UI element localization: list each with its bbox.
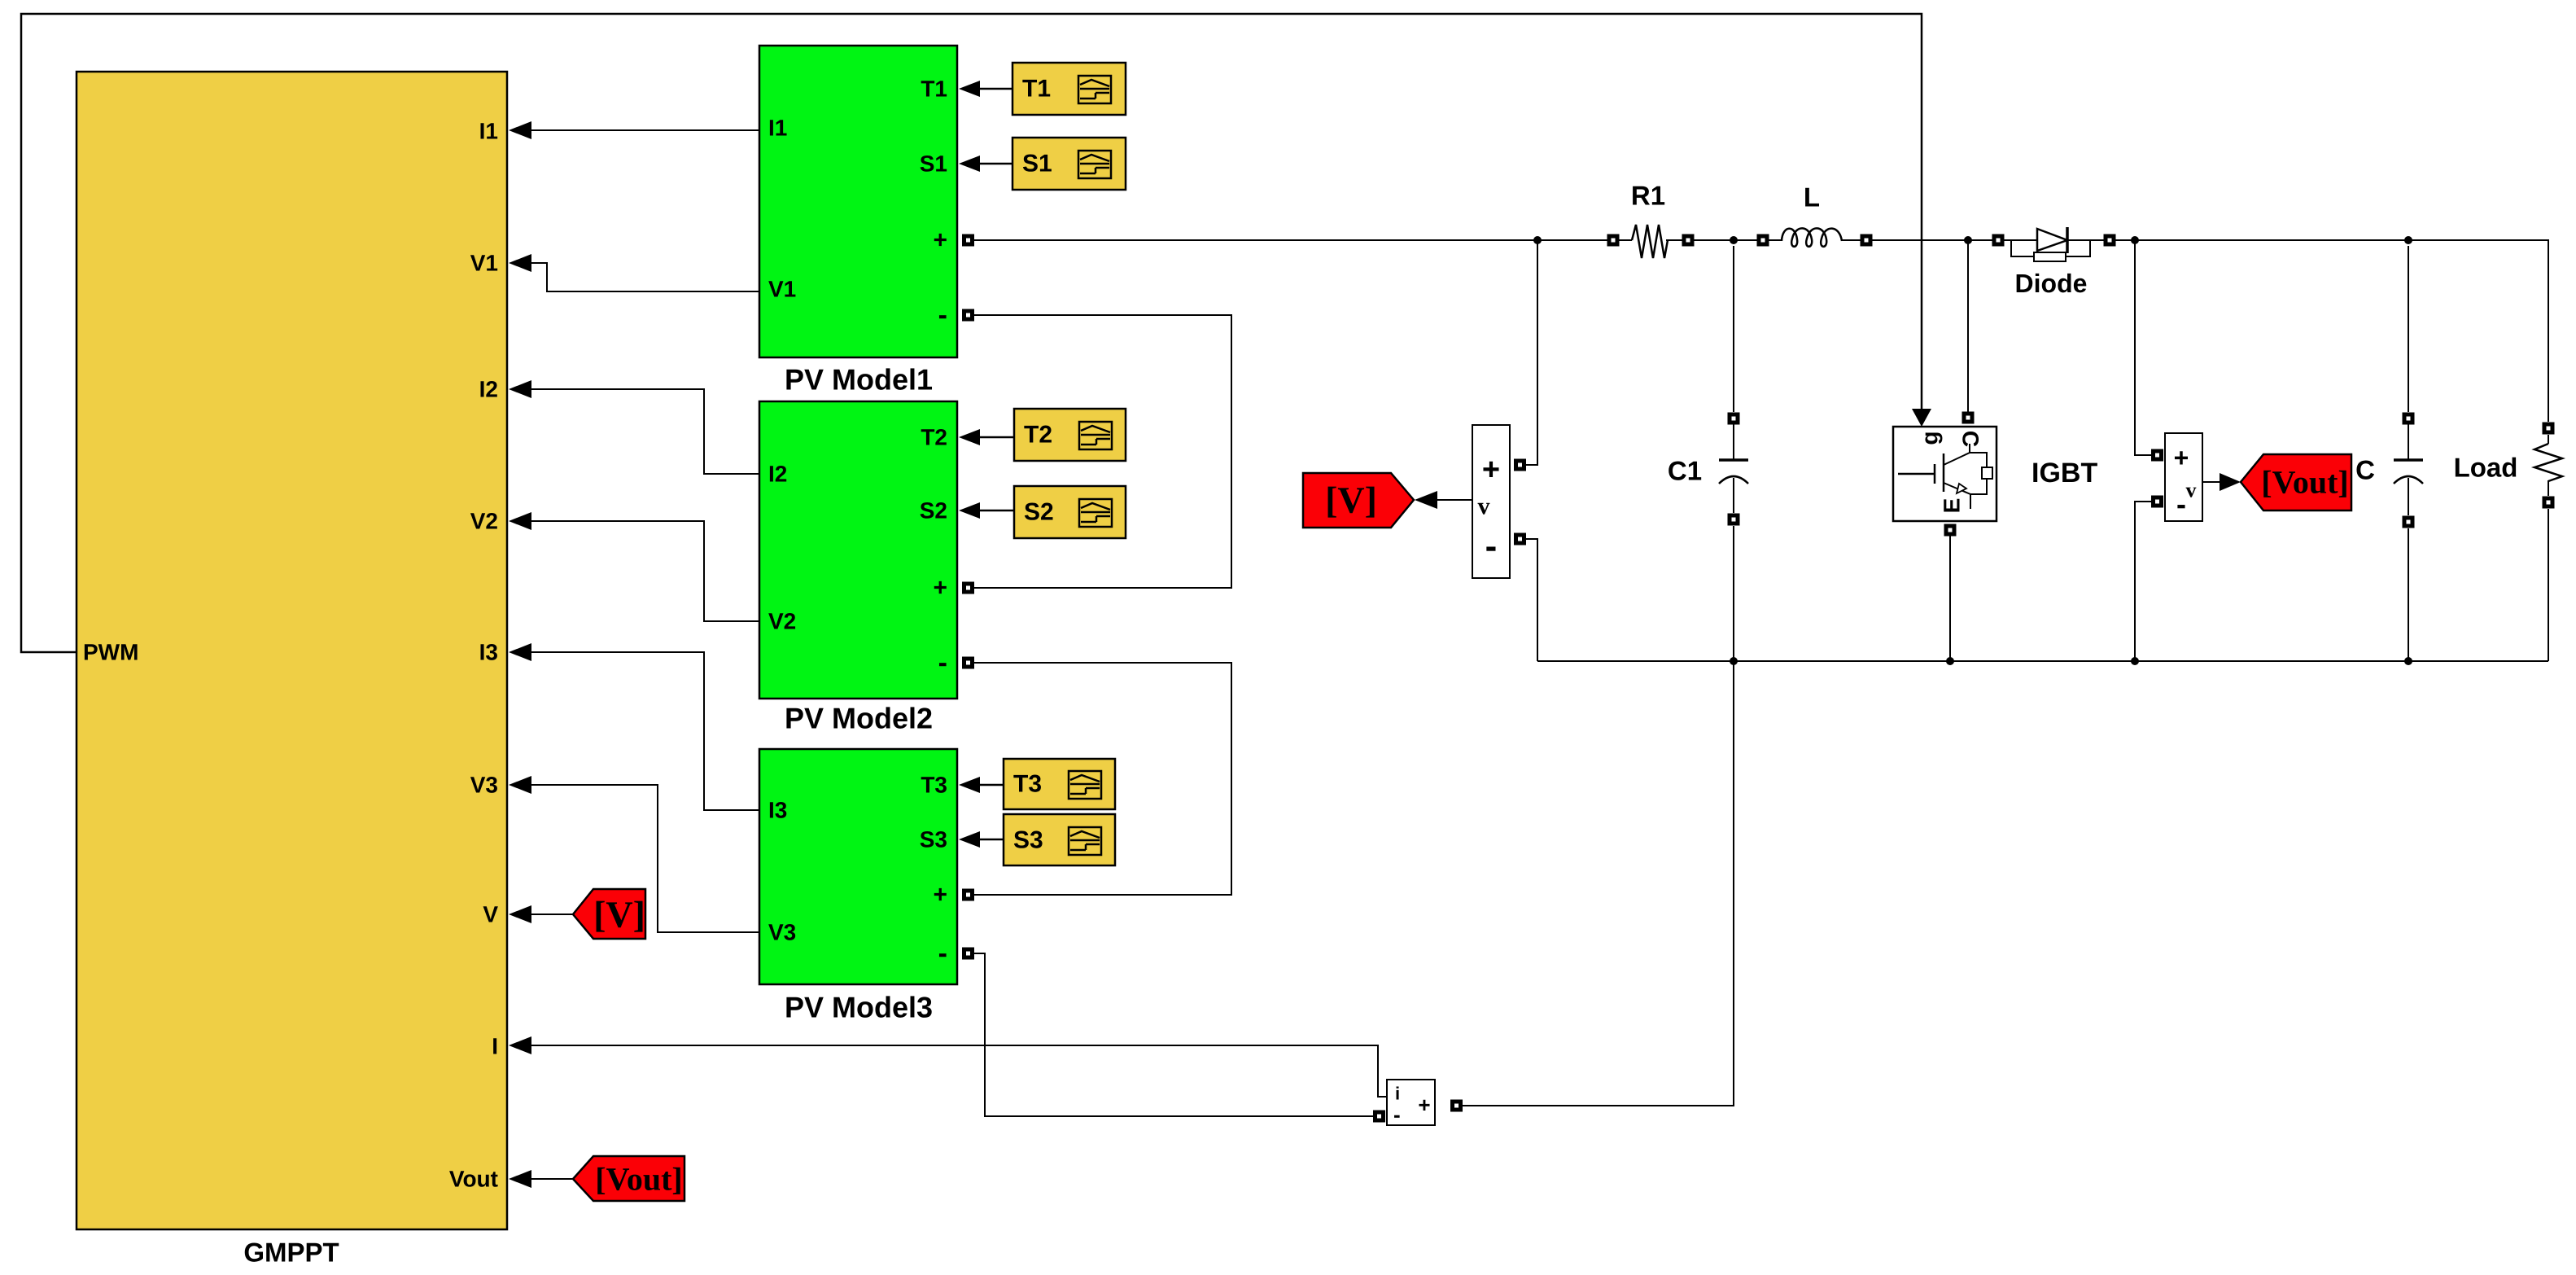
block PV Model1 (759, 46, 957, 397)
svg-text:+: + (933, 575, 947, 602)
diode Diode (2011, 227, 2090, 298)
svg-text:S3: S3 (920, 827, 947, 852)
svg-text:PV Model2: PV Model2 (785, 702, 933, 735)
port square IGBT E (1944, 524, 1957, 537)
svg-text:+: + (933, 882, 947, 909)
source block T3 (1004, 759, 1115, 809)
svg-text:I1: I1 (768, 116, 787, 141)
block PV Model2 (759, 401, 957, 735)
svg-text:V1: V1 (768, 277, 796, 302)
svg-text:+: + (1418, 1093, 1430, 1117)
svg-text:I2: I2 (768, 462, 787, 487)
svg-text:T3: T3 (921, 773, 947, 798)
from tag [V] (573, 889, 645, 939)
wire [V] to GMPPT V (509, 905, 573, 923)
svg-text:V2: V2 (768, 609, 796, 634)
svg-text:S2: S2 (920, 498, 947, 524)
svg-text:-: - (1485, 527, 1498, 567)
svg-text:[V]: [V] (1325, 480, 1377, 521)
svg-text:T1: T1 (921, 77, 947, 102)
port square PV Model2 + (962, 582, 974, 594)
wire V1 PV Model1 to GMPPT (509, 254, 759, 291)
wire S3 to PV Model3 (959, 831, 1004, 848)
resistor R1 (1631, 181, 1668, 259)
junction bottom rail at IGBT branch (1946, 657, 1954, 665)
junction top rail at VM1 branch (1533, 236, 1542, 244)
wire VM1 output to goto tag [V] (1415, 491, 1472, 509)
block GMPPT (77, 72, 507, 1268)
port square VM1 - (1514, 533, 1526, 545)
wire VM1 + to top rail (1526, 240, 1537, 465)
port square C1 top (1728, 413, 1740, 425)
wire T2 to PV Model2 (959, 429, 1014, 445)
wire T1 to PV Model1 (959, 81, 1012, 97)
source block S1 (1012, 138, 1126, 190)
svg-text:S1: S1 (920, 151, 947, 177)
port square PV Model3 - (962, 948, 974, 960)
svg-text:V: V (483, 902, 498, 927)
svg-text:v: v (2186, 479, 2197, 502)
svg-text:S2: S2 (1024, 499, 1054, 526)
port square VM2 + (2151, 449, 2163, 462)
wire PV Model1 - to PV Model2 + (974, 315, 1231, 588)
port square PV Model3 + (962, 889, 974, 901)
svg-text:I1: I1 (479, 119, 498, 144)
inductor L (1782, 182, 1842, 247)
port square PV Model2 - (962, 657, 974, 669)
wire VM2 + to top rail (2135, 240, 2151, 455)
wire T3 to PV Model3 (959, 777, 1004, 793)
port square VM1 + (1514, 459, 1526, 471)
wire IGBT E to bottom rail (1949, 536, 1951, 661)
svg-text:R1: R1 (1631, 181, 1665, 211)
port square R1 right (1682, 234, 1695, 247)
current measurement CM1 (1387, 1080, 1435, 1127)
source block S2 (1014, 486, 1126, 538)
svg-text:v: v (1478, 493, 1490, 520)
junction bottom rail at C branch (2404, 657, 2412, 665)
svg-text:L: L (1804, 182, 1820, 212)
transistor IGBT (1893, 427, 2097, 521)
wire V3 PV Model3 to GMPPT (509, 776, 759, 932)
port square L right (1861, 234, 1873, 247)
svg-text:[Vout]: [Vout] (2261, 464, 2348, 501)
port square VM2 - (2151, 496, 2163, 508)
svg-text:E: E (1940, 498, 1965, 514)
port square Diode left (1992, 234, 2005, 247)
resistor Load (2454, 435, 2562, 661)
junction bottom rail at VM2 branch (2131, 657, 2139, 665)
svg-text:S3: S3 (1013, 827, 1043, 854)
capacitor C (2355, 246, 2423, 661)
voltage measurement VM1 (1472, 425, 1510, 578)
junction top rail at C branch (2404, 236, 2412, 244)
svg-text:C1: C1 (1668, 456, 1702, 486)
wire V2 PV Model2 to GMPPT (509, 512, 759, 621)
port square L left (1757, 234, 1769, 247)
svg-text:-: - (1393, 1102, 1401, 1127)
svg-text:I3: I3 (479, 640, 498, 665)
wire VM1 - to bottom rail (1526, 539, 1537, 661)
wire I1 PV Model1 to GMPPT (509, 121, 759, 139)
wire I2 PV Model2 to GMPPT (509, 380, 759, 474)
svg-text:I2: I2 (479, 377, 498, 402)
junction bottom rail at C1 branch (1730, 657, 1738, 665)
wire [Vout] to GMPPT Vout (509, 1170, 573, 1188)
wire S2 to PV Model2 (959, 502, 1014, 519)
wire PV Model3 - to current measurement (974, 953, 1373, 1116)
svg-text:Vout: Vout (449, 1167, 498, 1192)
svg-text:T2: T2 (1024, 422, 1052, 449)
wire CM1 + to bottom rail (1463, 661, 1734, 1106)
voltage measurement VM2 (2165, 433, 2202, 521)
svg-text:PWM: PWM (83, 640, 138, 665)
wire PV Model2 - to PV Model3 + (974, 663, 1231, 895)
source block S3 (1004, 814, 1115, 865)
svg-text:+: + (933, 227, 947, 254)
wire PWM from GMPPT around top to IGBT gate (21, 14, 1931, 652)
port square R1 left (1607, 234, 1620, 247)
svg-text:+: + (1482, 453, 1500, 487)
wire I3 PV Model3 to GMPPT (509, 643, 759, 810)
source block T1 (1012, 63, 1126, 115)
port square Diode right (2104, 234, 2116, 247)
port square PV Model1 - (962, 309, 974, 322)
port square Load top (2543, 423, 2555, 435)
port square IGBT C (1962, 412, 1975, 424)
svg-text:V3: V3 (768, 920, 796, 945)
svg-text:PV Model1: PV Model1 (785, 363, 933, 397)
goto tag [Vout] (2241, 454, 2351, 510)
svg-text:I3: I3 (768, 798, 787, 823)
from tag [Vout] (573, 1156, 684, 1201)
svg-text:g: g (1918, 431, 1943, 445)
svg-text:-: - (938, 938, 947, 969)
source block T2 (1014, 409, 1126, 461)
svg-text:IGBT: IGBT (2031, 458, 2097, 489)
svg-text:Load: Load (2454, 453, 2518, 483)
svg-text:+: + (2174, 443, 2189, 472)
svg-text:-: - (938, 647, 947, 678)
svg-text:T3: T3 (1013, 771, 1042, 798)
wire S1 to PV Model1 (959, 156, 1012, 172)
junction top rail at IGBT branch (1964, 236, 1972, 244)
svg-text:V2: V2 (470, 509, 498, 534)
block PV Model3 (759, 749, 957, 1024)
svg-text:PV Model3: PV Model3 (785, 991, 933, 1024)
svg-text:C: C (2355, 455, 2375, 485)
goto tag [V] (1303, 473, 1414, 528)
capacitor C1 (1668, 246, 1748, 661)
svg-text:[Vout]: [Vout] (595, 1161, 682, 1198)
port square C1 bottom (1728, 514, 1740, 526)
svg-text:V3: V3 (470, 773, 498, 798)
port square PV Model1 + (962, 234, 974, 247)
wire VM2 - to bottom rail (2135, 502, 2151, 661)
port square Load bottom (2543, 497, 2555, 509)
wire bottom rail (1537, 660, 2548, 662)
junction top rail at VM2 branch (2131, 236, 2139, 244)
port square C top (2403, 413, 2415, 425)
wire VM2 output to goto tag [Vout] (2202, 473, 2241, 491)
svg-text:-: - (938, 300, 947, 331)
wire top rail from PV Model1 + to Load (974, 240, 2548, 422)
port square CM1 - (1373, 1111, 1385, 1123)
svg-text:T1: T1 (1022, 76, 1051, 103)
svg-text:V1: V1 (470, 251, 498, 276)
port square C bottom (2403, 516, 2415, 528)
svg-text:S1: S1 (1022, 151, 1052, 177)
svg-text:I: I (492, 1034, 498, 1059)
svg-text:T2: T2 (921, 425, 947, 450)
svg-text:GMPPT: GMPPT (243, 1238, 339, 1268)
junction top rail at C1 branch (1730, 236, 1738, 244)
wire IGBT C to top rail (1967, 240, 1969, 412)
port square CM1 + (1450, 1100, 1463, 1112)
wire current measurement i output to GMPPT I (509, 1036, 1387, 1097)
svg-text:i: i (1395, 1084, 1400, 1104)
svg-text:Diode: Diode (2015, 269, 2088, 298)
svg-text:[V]: [V] (593, 894, 645, 935)
svg-text:-: - (2176, 488, 2186, 521)
